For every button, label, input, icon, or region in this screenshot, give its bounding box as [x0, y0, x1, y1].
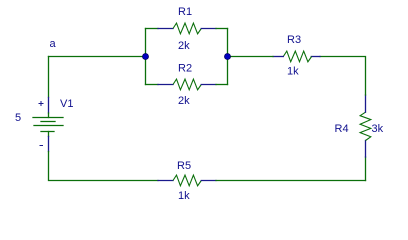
wire battery to bottom-left corner and bottom horizontal [49, 152, 159, 181]
svg-text:5: 5 [15, 112, 21, 124]
wire bottom-right corner up to R4 [365, 157, 367, 181]
svg-text:2k: 2k [178, 95, 190, 107]
resistor R1 [146, 23, 228, 34]
wire main between right junction and R3 [228, 56, 274, 58]
resistor R4 [360, 95, 371, 157]
wire left vertical down to battery [48, 57, 50, 98]
wire left parallel branch vertical [145, 29, 147, 85]
svg-text:V1: V1 [60, 98, 73, 110]
wire right parallel branch vertical [227, 29, 229, 85]
battery V1 [33, 98, 63, 152]
svg-text:R5: R5 [177, 160, 191, 172]
svg-text:1k: 1k [287, 66, 299, 78]
svg-text:R3: R3 [287, 34, 301, 46]
resistor R5 [158, 175, 216, 186]
svg-text:R1: R1 [178, 6, 192, 18]
svg-text:R4: R4 [335, 123, 349, 135]
svg-text:a: a [50, 38, 57, 50]
battery minus sign [40, 145, 44, 147]
junction dot right [225, 54, 231, 60]
junction dot left [143, 54, 149, 60]
svg-text:2k: 2k [178, 40, 190, 52]
wire bottom horizontal right part [216, 180, 366, 182]
resistor R2 [146, 79, 228, 90]
svg-text:1k: 1k [178, 190, 190, 202]
wire top-left horizontal from node a to left junction [49, 56, 146, 58]
svg-text:R2: R2 [178, 63, 192, 75]
svg-text:3k: 3k [372, 123, 384, 135]
resistor R3 [273, 51, 320, 62]
wire right vertical upper and top-right horizontal [320, 57, 366, 96]
battery plus sign [39, 101, 44, 106]
